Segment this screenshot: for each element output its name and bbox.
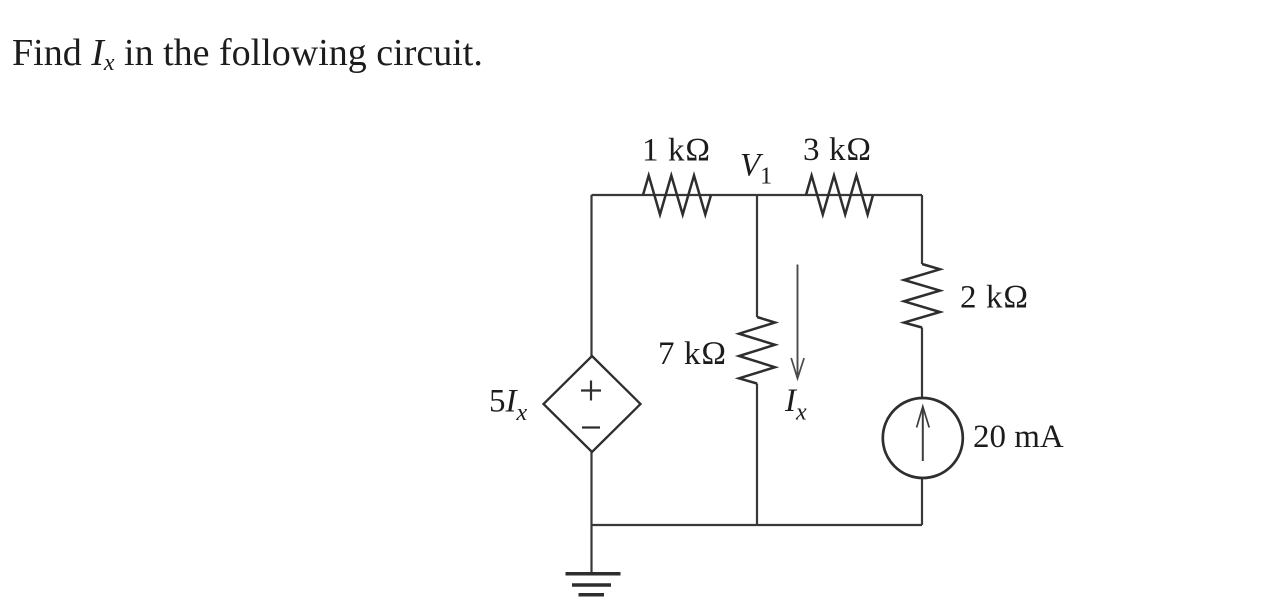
wire: right vertical middle (2k resistor to current source top) (921, 328, 923, 399)
resistor R4 2 kOhm (vertical, right branch) (904, 264, 940, 328)
wire: left vertical upper (top wire to dependent source top) (590, 195, 592, 357)
wire: middle vertical upper (node V1 down to 7k resistor) (756, 195, 758, 317)
svg-text:2 kΩ: 2 kΩ (960, 280, 1029, 316)
wire: left vertical lower (dependent source bottom to bottom wire) (590, 451, 592, 525)
svg-text:3 kΩ: 3 kΩ (803, 132, 872, 168)
wire: middle vertical lower (7k resistor to bottom wire) (756, 384, 758, 526)
wire: ground stem (590, 525, 592, 573)
resistor R3 7 kOhm (vertical, middle branch) (739, 317, 775, 384)
Ix arrowhead (791, 358, 804, 379)
current source arrow (up) (922, 408, 924, 461)
wire: top horizontal from left branch to right branch (592, 194, 923, 196)
current Ix reference arrow (down, middle) (797, 265, 799, 376)
svg-text:20 mA: 20 mA (973, 419, 1064, 455)
ground symbol bar 1 (widest) (566, 572, 621, 576)
svg-text:1 kΩ: 1 kΩ (642, 133, 711, 169)
dependent voltage source U1 diamond 5Ix (544, 356, 641, 452)
minus sign inside source (582, 426, 600, 428)
wire: bottom horizontal (592, 524, 923, 526)
resistor R1 1 kOhm (horizontal, top-left) (643, 176, 711, 215)
wire: right vertical upper (top wire to 2k resistor) (921, 195, 923, 264)
ground symbol bar 3 (shortest) (579, 593, 605, 597)
wire: right vertical lower (current source bottom to bottom wire) (921, 478, 923, 526)
svg-text:5Ix: 5Ix (489, 384, 528, 427)
svg-text:7 kΩ: 7 kΩ (658, 336, 727, 372)
svg-text:Find Ix in the following circu: Find Ix in the following circuit. (12, 32, 483, 76)
resistor R2 3 kOhm (horizontal, top-right) (806, 176, 873, 215)
ground symbol bar 2 (572, 583, 611, 587)
current source I1 circle (883, 398, 963, 478)
plus sign inside source (581, 381, 601, 401)
current source arrowhead (917, 407, 930, 428)
svg-text:Ix: Ix (784, 383, 807, 426)
svg-text:V1: V1 (740, 148, 772, 190)
